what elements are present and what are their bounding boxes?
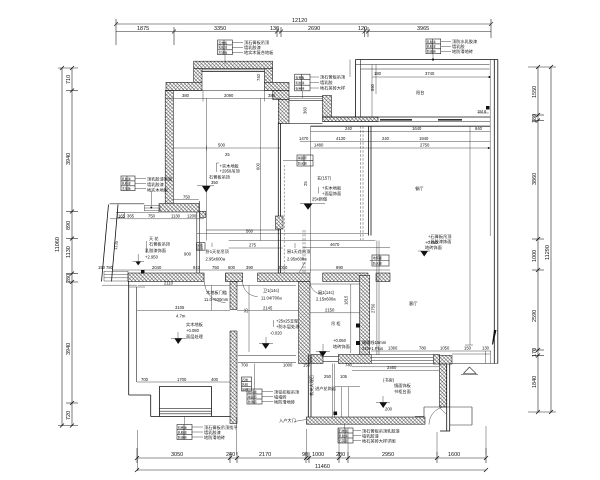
band dim texts [112, 269, 390, 271]
bedroom2 interior [138, 285, 230, 287]
svg-text:150: 150 [98, 265, 106, 270]
svg-text:玄关大理石: 玄关大理石 [308, 375, 315, 396]
room A mid line [173, 147, 280, 149]
svg-text:165: 165 [118, 213, 126, 218]
bedroom1 right wall column [273, 91, 289, 100]
bedroom2 balcony [159, 385, 211, 387]
svg-text:厨1(14c): 厨1(14c) [318, 290, 335, 295]
svg-text:2690: 2690 [308, 26, 320, 32]
svg-text:石膏板吊顶: 石膏板吊顶 [149, 241, 171, 248]
bedroom1 bay window [202, 68, 264, 70]
bottom right dim row [371, 350, 491, 352]
bed1 ceiling note box [197, 243, 230, 262]
svg-text:3940: 3940 [66, 153, 72, 165]
bedroom2 right wall column [230, 282, 237, 424]
extension lines to bottom dims [137, 430, 139, 471]
box cell glyphs [122, 39, 436, 443]
svg-text:镜面饰板: 镜面饰板 [394, 382, 412, 389]
svg-text:750: 750 [183, 195, 191, 200]
bed1 level marker [197, 152, 240, 193]
terrace bottom window band [323, 117, 379, 122]
svg-text:乳胶漆: 乳胶漆 [122, 181, 131, 186]
bottom right edge [450, 363, 498, 365]
dining level marker [300, 175, 342, 210]
right segment dimension line 1550/180/3860/1000/2590/170/1840 [528, 67, 556, 412]
svg-text:25x新做: 25x新做 [312, 196, 328, 203]
svg-text:170: 170 [532, 348, 538, 357]
svg-text:700: 700 [141, 377, 149, 382]
svg-text:25: 25 [303, 181, 308, 186]
svg-text:进户花岗岩: 进户花岗岩 [315, 385, 336, 392]
svg-text:3050: 3050 [171, 452, 183, 458]
svg-text:2170: 2170 [259, 452, 271, 458]
bedroom1 left step band [166, 82, 202, 90]
svg-text:+防水层处理: +防水层处理 [276, 323, 300, 330]
svg-text:1940: 1940 [419, 136, 429, 141]
left total dimension line 11060 [55, 68, 62, 426]
svg-text:地防滑地砖: 地防滑地砖 [452, 48, 473, 55]
hall 2-row box [283, 155, 313, 166]
entry diagonal wall [102, 205, 109, 282]
bath level cluster [259, 318, 300, 350]
svg-text:1135: 1135 [113, 240, 119, 250]
svg-text:750: 750 [212, 265, 220, 270]
svg-text:240: 240 [382, 136, 390, 141]
porch rectangle [447, 406, 472, 408]
svg-text:11060: 11060 [55, 237, 61, 252]
svg-text:1875: 1875 [137, 26, 149, 32]
svg-text:地砖面: 地砖面 [373, 255, 382, 260]
entry dim row [110, 218, 204, 220]
svg-text:地实木复合地板: 地实木复合地板 [244, 49, 274, 56]
svg-text:380: 380 [268, 93, 276, 98]
svg-text:720: 720 [66, 411, 72, 420]
svg-text:280: 280 [66, 274, 72, 283]
svg-text:客厅: 客厅 [409, 300, 417, 307]
svg-text:2040: 2040 [152, 265, 162, 270]
bedroom1 window dim line [166, 97, 281, 99]
svg-text:740: 740 [256, 73, 261, 81]
svg-text:(书房): (书房) [383, 377, 395, 384]
bottom annotation box bed2 [177, 417, 238, 442]
svg-text:+乳胶漆饰面: +乳胶漆饰面 [428, 238, 451, 245]
svg-text:1815: 1815 [344, 295, 349, 305]
svg-text:2145: 2145 [263, 305, 273, 310]
living black sliver [492, 330, 497, 345]
svg-text:250: 250 [324, 374, 332, 379]
svg-text:130: 130 [270, 26, 279, 32]
svg-text:木地板: 木地板 [218, 50, 227, 55]
bedroom2 walls [128, 281, 130, 395]
bath door arc [243, 282, 258, 297]
svg-text:木地板: 木地板 [122, 186, 131, 191]
wall face below bedroom1 [196, 212, 198, 273]
svg-text:餐厅: 餐厅 [415, 185, 423, 192]
svg-text:200: 200 [385, 407, 393, 412]
svg-text:400: 400 [211, 377, 219, 382]
svg-text:3105: 3105 [175, 305, 185, 310]
terrace annotation box [426, 38, 477, 61]
svg-text:乳胶漆: 乳胶漆 [122, 176, 131, 181]
svg-text:1840: 1840 [532, 376, 538, 388]
svg-text:11.0+930mm: 11.0+930mm [204, 297, 229, 302]
svg-text:踢脚线15mm: 踢脚线15mm [362, 339, 387, 346]
svg-text:4670: 4670 [330, 242, 340, 247]
terrace top wall [356, 59, 498, 61]
svg-text:乳胶漆: 乳胶漆 [178, 429, 187, 434]
svg-text:防滑砖: 防滑砖 [427, 49, 436, 54]
study level cluster [376, 382, 412, 412]
svg-text:+2.950: +2.950 [145, 255, 159, 260]
svg-text:2090: 2090 [224, 93, 234, 98]
bedroom1 bay top wall [194, 61, 273, 68]
right total dimension line 11290 [545, 67, 551, 412]
svg-text:1480: 1480 [314, 143, 324, 148]
svg-text:600: 600 [256, 162, 261, 170]
dining dim row [300, 141, 490, 143]
svg-text:890: 890 [336, 265, 344, 270]
svg-text:石膏板: 石膏板 [339, 428, 348, 433]
svg-text:2110: 2110 [164, 280, 174, 285]
bedroom1 right step band [264, 82, 289, 90]
top segment dimension line 1875/3350/130/2690/120/3965 [116, 26, 491, 45]
bed2 level cluster [171, 321, 204, 344]
left annotation box [121, 176, 172, 194]
svg-text:2750: 2750 [420, 143, 430, 148]
svg-text:2000: 2000 [278, 265, 288, 270]
svg-text:900: 900 [184, 252, 192, 257]
svg-text:3940: 3940 [66, 343, 72, 355]
svg-text:1470: 1470 [299, 136, 309, 141]
svg-text:105: 105 [340, 374, 348, 379]
svg-text:910: 910 [193, 265, 201, 270]
svg-text:1000: 1000 [532, 250, 538, 262]
bedroom1 inner face line [166, 90, 281, 92]
kitchen [360, 275, 370, 360]
study right wall [440, 356, 453, 365]
svg-text:1000: 1000 [312, 452, 324, 458]
study room [352, 370, 440, 372]
middle wall band with doors [128, 273, 204, 282]
svg-text:150: 150 [464, 346, 472, 351]
svg-text:1640: 1640 [412, 126, 422, 131]
bathroom [299, 282, 310, 364]
living level marker [418, 240, 442, 257]
svg-text:地实木地板: 地实木地板 [147, 187, 169, 194]
bottom segment dimension line 3050/240/2170/90/1000/280/2950/1600 [137, 448, 486, 463]
svg-text:乳胶漆: 乳胶漆 [339, 433, 348, 438]
right exterior wall [493, 60, 495, 364]
svg-text:130: 130 [482, 346, 490, 351]
svg-text:350: 350 [211, 180, 219, 185]
svg-text:乳胶漆: 乳胶漆 [218, 45, 227, 50]
svg-text:280: 280 [336, 452, 345, 458]
svg-text:3350: 3350 [214, 26, 226, 32]
svg-text:地砖饰面: 地砖饰面 [333, 343, 350, 350]
vent shaft column [323, 96, 332, 118]
svg-text:2.95x600a: 2.95x600a [287, 257, 307, 262]
svg-text:750: 750 [148, 213, 156, 218]
svg-text:墙面砖: 墙面砖 [298, 155, 307, 160]
hall dashed vertical [302, 230, 304, 273]
svg-text:实木地板: 实木地板 [186, 321, 204, 328]
bedroom1 interior verticals [206, 98, 208, 240]
svg-text:360: 360 [303, 106, 308, 114]
svg-text:500: 500 [218, 143, 226, 148]
entry triangle symbol [464, 367, 477, 374]
svg-text:780: 780 [419, 346, 427, 351]
kitchen level cluster [316, 320, 350, 357]
svg-text:厨1天花吊顶: 厨1天花吊顶 [287, 248, 311, 255]
svg-text:310+1.Plus: 310+1.Plus [362, 346, 383, 351]
svg-text:阳台: 阳台 [416, 89, 424, 96]
svg-text:防水层: 防水层 [298, 161, 307, 166]
svg-text:640: 640 [475, 126, 483, 131]
svg-text:乳胶: 乳胶 [242, 382, 248, 387]
svg-text:11290: 11290 [545, 245, 551, 260]
svg-text:600: 600 [228, 265, 236, 270]
svg-text:石英砖: 石英砖 [295, 85, 304, 90]
bedroom1 bottom-left band [159, 204, 199, 213]
svg-text:2150: 2150 [325, 307, 335, 312]
svg-text:吊 柜: 吊 柜 [331, 320, 341, 327]
bedroom2 door arc [205, 282, 226, 303]
left segment dimension line 710/3940/890/1130/280/3940/720 [58, 68, 78, 426]
svg-text:铝扣板: 铝扣板 [248, 389, 257, 394]
entry window [104, 271, 128, 281]
living interior line [311, 147, 489, 149]
bath bottom annotation box [247, 364, 300, 406]
svg-text:石膏板: 石膏板 [218, 40, 227, 45]
svg-text:11460: 11460 [315, 464, 330, 470]
svg-text:25: 25 [225, 152, 230, 157]
svg-text:390: 390 [246, 265, 254, 270]
svg-text:1700: 1700 [177, 377, 187, 382]
bedroom1 bottom line [206, 229, 280, 231]
living area interior lines [310, 126, 312, 273]
svg-text:防水层: 防水层 [373, 261, 382, 266]
svg-text:乳胶漆: 乳胶漆 [427, 44, 436, 49]
svg-text:380: 380 [182, 93, 190, 98]
svg-text:3740: 3740 [425, 71, 435, 76]
svg-text:地防滑地砖: 地防滑地砖 [204, 434, 225, 441]
svg-text:地防滑地砖: 地防滑地砖 [274, 399, 295, 406]
bedroom1 left jamb [194, 69, 202, 83]
top total dimension line 12120 [114, 18, 493, 45]
svg-text:180: 180 [374, 71, 382, 76]
entry hall verticals [307, 355, 309, 418]
svg-text:365: 365 [127, 213, 135, 218]
svg-text:石膏: 石膏 [242, 377, 248, 382]
svg-text:乳胶漆: 乳胶漆 [427, 39, 436, 44]
svg-text:4130: 4130 [336, 136, 346, 141]
svg-text:240: 240 [345, 126, 353, 131]
svg-text:石膏板: 石膏板 [178, 424, 187, 429]
svg-text:书柜台面: 书柜台面 [394, 388, 411, 395]
svg-text:890: 890 [370, 83, 375, 91]
svg-text:1600: 1600 [448, 452, 460, 458]
svg-text:防滑砖: 防滑砖 [248, 399, 257, 404]
svg-text:-0.020: -0.020 [270, 331, 283, 336]
dining annotation box [295, 74, 346, 99]
svg-text:卧1天花吊顶: 卧1天花吊顶 [206, 248, 230, 255]
svg-text:740: 740 [345, 363, 353, 368]
door openings lines [203, 273, 205, 282]
study bottom steps [424, 406, 447, 408]
svg-text:700: 700 [241, 363, 249, 368]
kitchen wall squares [356, 324, 360, 328]
bedroom1 left wall column [165, 91, 173, 205]
svg-text:780: 780 [106, 265, 114, 270]
bottom band of bath/kitchen [238, 355, 296, 357]
svg-text:275: 275 [249, 243, 257, 248]
svg-text:吊顶: 吊顶 [197, 247, 203, 251]
svg-text:乳胶漆: 乳胶漆 [295, 80, 304, 85]
svg-text:地石英砖大样: 地石英砖大样 [320, 85, 345, 92]
svg-text:+0.050: +0.050 [333, 338, 347, 343]
svg-text:2950: 2950 [382, 452, 394, 458]
svg-text:2750: 2750 [371, 303, 376, 313]
svg-text:710: 710 [66, 75, 72, 84]
entry level marker [133, 235, 171, 265]
dining top band [289, 96, 323, 98]
terrace black square [486, 106, 490, 110]
svg-text:560: 560 [246, 229, 254, 234]
svg-text:120: 120 [358, 26, 367, 32]
bottom total dimension line 11460 [137, 464, 486, 470]
svg-text:3860: 3860 [532, 173, 538, 185]
svg-text:150: 150 [303, 363, 311, 368]
svg-text:25: 25 [244, 308, 249, 313]
svg-text:4.7m: 4.7m [176, 314, 186, 319]
svg-text:防滑砖: 防滑砖 [178, 434, 187, 439]
svg-text:乳胶漆饰面: 乳胶漆饰面 [145, 247, 166, 254]
entry bottom annotation box [338, 428, 400, 445]
window at band left [144, 206, 160, 211]
svg-text:地石英砖大样详图: 地石英砖大样详图 [362, 438, 396, 445]
svg-text:12120: 12120 [292, 18, 307, 24]
svg-text:木地板门槛: 木地板门槛 [206, 289, 227, 296]
kitchen door arc [310, 282, 323, 295]
bedroom1 right jamb [264, 69, 272, 83]
svg-text:2.95x600a: 2.95x600a [206, 257, 226, 262]
svg-text:2590: 2590 [532, 310, 538, 322]
hall door jamb hatch [276, 216, 284, 229]
svg-text:1130: 1130 [66, 246, 72, 258]
svg-text:11.04/700a: 11.04/700a [261, 296, 282, 301]
bedroom1/hall wall lines down [277, 123, 279, 273]
svg-text:卫1(14c): 卫1(14c) [263, 288, 280, 293]
svg-text:玄(157): 玄(157) [317, 175, 332, 182]
hall interior lines [197, 233, 368, 235]
svg-text:1M 6: 1M 6 [477, 109, 487, 114]
bottom entry band [306, 417, 425, 424]
top annotation box [218, 39, 275, 64]
dim tick slashes [60, 65, 553, 472]
svg-text:1130: 1130 [171, 213, 181, 218]
svg-text:1200: 1200 [187, 213, 197, 218]
svg-text:1000: 1000 [283, 363, 293, 368]
svg-text:890: 890 [66, 221, 72, 230]
svg-text:面层处理: 面层处理 [186, 333, 204, 340]
svg-text:地砖饰面: 地砖饰面 [425, 244, 442, 251]
svg-text:石膏板: 石膏板 [295, 74, 304, 79]
svg-text:1360: 1360 [388, 346, 398, 351]
svg-text:墙面砖: 墙面砖 [248, 394, 257, 399]
svg-text:+0.080: +0.080 [186, 328, 200, 333]
svg-text:2460: 2460 [387, 365, 397, 370]
svg-text:1550: 1550 [532, 86, 538, 98]
dining 2-row box [370, 255, 389, 266]
svg-text:1050: 1050 [440, 346, 450, 351]
terrace left wall [355, 60, 357, 118]
svg-text:3965: 3965 [417, 26, 429, 32]
svg-text:2.15x600a: 2.15x600a [316, 297, 336, 302]
svg-text:入户大门: 入户大门 [279, 417, 296, 424]
svg-text:石英砖: 石英砖 [339, 438, 348, 443]
